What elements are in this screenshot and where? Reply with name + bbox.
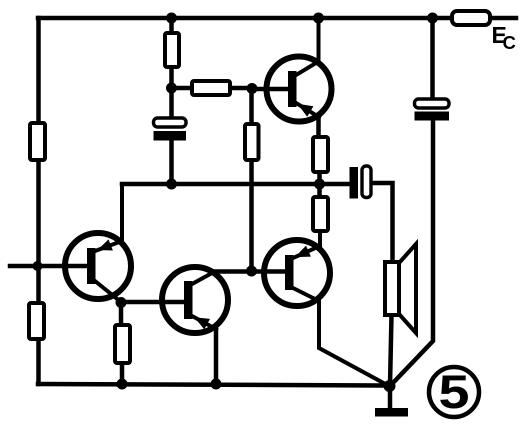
svg-text:C: C bbox=[503, 32, 516, 53]
svg-text:5: 5 bbox=[439, 365, 470, 418]
